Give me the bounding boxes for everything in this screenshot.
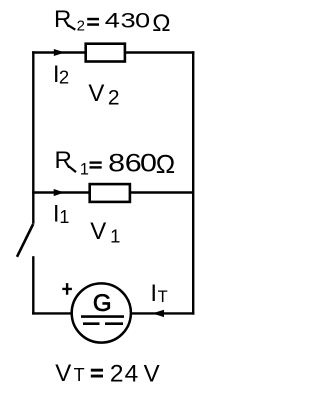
wire right vertical [192,51,194,314]
svg-text:2: 2 [110,361,124,388]
wire bottom left segment [32,312,72,314]
svg-text:8: 8 [108,149,125,177]
svg-text:V: V [144,361,160,388]
svg-text:R: R [55,147,72,174]
arrow IT [152,310,164,317]
svg-text:3: 3 [121,9,136,32]
wire left vertical lower [32,256,34,314]
arrow I1 [54,189,65,196]
svg-text:0: 0 [135,9,150,32]
svg-text:T: T [74,365,85,385]
label I1 [53,201,70,228]
svg-text:V: V [55,360,71,387]
svg-text:2: 2 [108,86,120,109]
wire middle left segment [32,191,90,193]
svg-text:T: T [158,288,168,306]
label R1 value [55,147,176,179]
resistor R1 [90,184,130,202]
wire top right segment [125,51,194,53]
svg-text:Ω: Ω [156,149,175,179]
label VT value [55,360,159,388]
svg-text:1: 1 [59,207,69,227]
svg-text:V: V [88,80,104,107]
svg-text:2: 2 [77,17,85,34]
svg-text:4: 4 [125,361,139,388]
svg-text:Ω: Ω [152,10,170,37]
svg-text:V: V [90,218,106,245]
wire bottom right segment [130,312,194,314]
label R2 value [54,6,171,37]
svg-text:1: 1 [110,226,120,247]
svg-text:0: 0 [140,149,157,177]
svg-text:I: I [150,280,157,307]
resistor R2 [86,44,125,62]
label IT [150,280,167,307]
svg-text:2: 2 [59,67,69,88]
svg-text:R: R [54,6,71,33]
arrow I2 [54,49,65,56]
label I2 [53,61,69,88]
generator solid bar [81,315,124,318]
wire top left segment [32,51,86,53]
label + polarity [62,283,72,295]
label V1 [90,218,120,247]
switch blade [17,224,33,257]
wire left vertical upper [32,51,34,224]
generator U1 circle [72,283,131,342]
label V2 [88,80,119,109]
generator dashed bar [83,322,123,325]
svg-text:1: 1 [80,161,89,179]
wire middle right segment [130,191,194,193]
svg-text:4: 4 [105,9,120,32]
svg-text:G: G [93,290,112,317]
